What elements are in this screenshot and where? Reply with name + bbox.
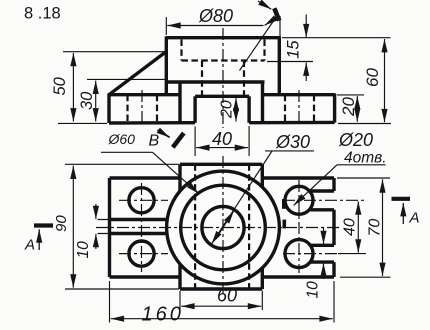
cylinder left edge	[165, 36, 168, 94]
hole top left	[129, 188, 154, 213]
block left edge bottom seg	[178, 264, 181, 289]
circle d60	[181, 185, 266, 270]
hidden cavity d60 left	[180, 40, 182, 61]
dim 10 slot upper arrow	[323, 228, 325, 244]
dim 90	[72, 166, 74, 288]
cylinder right edge	[278, 36, 281, 95]
centerlines front view	[142, 28, 299, 128]
ext 60 bottom	[338, 123, 391, 125]
centerlines plan	[96, 156, 364, 297]
ext 160 right	[333, 281, 335, 323]
plate top right edge	[263, 93, 335, 96]
section B plan small bar 1	[282, 199, 286, 209]
ext line 15 bottom	[267, 61, 313, 63]
dim 10 left upper arrow	[95, 204, 97, 219]
hidden hole d30 right	[243, 61, 245, 97]
hidden lines front view	[128, 40, 315, 123]
ext 20 right top	[337, 94, 364, 96]
svg-text:10: 10	[305, 281, 322, 299]
hole bottom left	[129, 241, 154, 266]
svg-text:В: В	[149, 133, 160, 150]
slot top right edges	[311, 191, 335, 210]
leader d30 arrow lower	[212, 219, 228, 244]
svg-text:160: 160	[142, 304, 184, 326]
A left thick bar	[34, 223, 53, 227]
ext line d80 right	[279, 16, 281, 37]
axis right slots vertical	[298, 180, 300, 273]
left slot edges	[110, 220, 168, 234]
leader d30 diameter line	[211, 151, 272, 245]
dim 60 right	[384, 39, 386, 122]
circle d30	[202, 206, 244, 248]
axis left hole bottom horizontal	[119, 253, 168, 255]
dim 70 right	[382, 179, 384, 276]
ext 10 left	[98, 220, 111, 234]
arrow B small	[258, 1, 271, 9]
svg-text:8 .18: 8 .18	[24, 5, 61, 23]
dim 40 mid	[196, 147, 248, 149]
plate right edge	[333, 93, 336, 122]
ext 60b right	[261, 291, 263, 310]
axis center front	[222, 28, 224, 128]
ext 160 left	[109, 281, 111, 323]
section B plan small bar 2	[282, 220, 286, 229]
slot bottom right edges	[311, 245, 335, 262]
dim 15 upper arrow	[305, 15, 307, 38]
slot circle top right	[285, 186, 313, 214]
svg-text:A: A	[409, 210, 420, 227]
A left arrow	[38, 229, 40, 250]
block right edge	[261, 82, 264, 123]
axis horizontal plan / A-A	[96, 227, 341, 229]
dim 40 right	[357, 201, 359, 252]
dim 160	[111, 318, 333, 320]
hidden hole d30 left	[201, 61, 203, 97]
hidden notch lines plan	[195, 164, 249, 289]
cutting plane thick stroke B top	[274, 8, 279, 20]
notch top	[195, 95, 249, 98]
hidden hole left boss 2	[156, 95, 158, 123]
dim 20 notch	[235, 98, 237, 122]
block left edge top seg	[178, 164, 181, 191]
svg-text:Ø30: Ø30	[275, 132, 310, 152]
axis left holes vertical	[141, 183, 143, 272]
left wing left edge	[108, 178, 111, 277]
svg-text:Ø60: Ø60	[108, 131, 136, 147]
ext 40 left	[194, 127, 196, 157]
ext 70 bottom	[340, 276, 391, 278]
block top edge	[180, 163, 262, 166]
cylinder bottom / block top edge	[166, 80, 264, 83]
A right arrow	[402, 203, 404, 224]
ext 50 top	[63, 51, 166, 53]
notch right side	[247, 96, 250, 123]
axis right holes front	[298, 90, 300, 126]
hidden notch right plan	[248, 164, 250, 289]
block bottom edge	[180, 287, 262, 290]
underline d20	[337, 164, 386, 166]
left wing bottom edge	[110, 275, 181, 278]
A right thick bar	[392, 197, 411, 201]
right wing right edge segs	[332, 178, 335, 277]
svg-text:40: 40	[342, 218, 359, 236]
axis right slot top horizontal	[283, 199, 364, 201]
block right edge top seg	[261, 164, 264, 187]
leader d20	[294, 165, 337, 206]
section trace B thin diagonal	[240, 17, 277, 71]
thick stroke near d60 label	[173, 133, 184, 147]
ext bottom left	[58, 122, 107, 124]
svg-text:Ø80: Ø80	[198, 6, 233, 26]
dim 10 slot lower arrow	[323, 263, 325, 279]
svg-text:30: 30	[78, 91, 96, 110]
dim 10 left lower arrow	[95, 234, 97, 249]
label arrow glyph near d60	[158, 130, 170, 138]
svg-text:50: 50	[51, 76, 69, 95]
svg-text:4отв.: 4отв.	[344, 150, 387, 167]
ext line top (60/15)	[282, 37, 391, 39]
hidden notch left plan	[194, 164, 196, 289]
ext 70 top	[337, 177, 390, 179]
svg-text:20: 20	[219, 100, 236, 119]
hidden cavity d60 right	[263, 40, 265, 61]
block left edge	[178, 82, 181, 123]
cylinder top edge	[166, 36, 279, 39]
ext 40 right	[248, 126, 250, 156]
ext 40r bottom	[338, 253, 366, 255]
dim 60 bottom	[181, 305, 261, 307]
svg-text:20: 20	[339, 97, 358, 117]
right wing top edge	[262, 176, 334, 179]
ext 90 top	[65, 163, 179, 165]
axis right slot bottom horizontal	[283, 253, 341, 255]
right wing bottom edge	[262, 275, 334, 278]
bottom edge right	[249, 121, 335, 125]
svg-text:Ø20: Ø20	[338, 130, 373, 150]
ext line d80 left	[165, 17, 167, 35]
leader d30 arrow upper	[218, 211, 234, 236]
svg-text:60: 60	[217, 286, 237, 306]
dim line d80	[167, 25, 263, 27]
leader d60 arrow to circle	[153, 152, 199, 194]
svg-text:40: 40	[212, 129, 232, 149]
dim 20 right	[356, 96, 358, 122]
svg-text:60: 60	[363, 68, 382, 87]
leader d60 underline	[101, 151, 153, 153]
bottom edge left	[109, 121, 195, 125]
rib slant	[109, 52, 166, 95]
plate top left edge	[109, 93, 180, 96]
svg-text:A: A	[24, 237, 35, 254]
plate left edge	[107, 93, 110, 123]
svg-text:90: 90	[53, 215, 70, 232]
hidden slot hole right 2	[313, 95, 315, 123]
dim 30 left	[95, 81, 97, 122]
axis vertical plan	[222, 156, 224, 297]
svg-text:15: 15	[285, 40, 303, 59]
svg-text:70: 70	[367, 219, 384, 237]
slot circle bottom right	[285, 240, 313, 268]
block right edge bottom seg	[261, 268, 264, 290]
circle d80	[167, 171, 280, 284]
left wing top edge	[110, 176, 181, 179]
hidden slot hole right 1	[284, 95, 286, 123]
axis left holes front	[141, 90, 143, 126]
dim 15 lower arrow	[305, 63, 307, 82]
arrow B big	[265, 17, 278, 26]
axis left hole top horizontal	[119, 199, 168, 201]
notch left side	[193, 96, 196, 123]
hidden cavity bottom	[182, 59, 265, 61]
underline d30	[265, 150, 314, 152]
ext 90 bottom	[65, 288, 179, 290]
dim 50 left	[72, 53, 74, 122]
hidden hole left boss 1	[126, 95, 128, 123]
ext 60b left	[179, 291, 181, 310]
ext 30 top	[87, 78, 166, 80]
svg-text:10: 10	[75, 241, 92, 259]
